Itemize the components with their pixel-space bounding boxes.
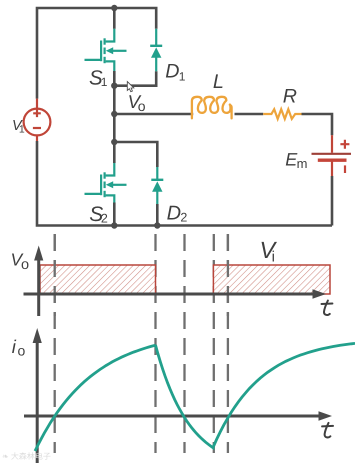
svg-text:o: o [18, 343, 26, 359]
svg-text:i: i [272, 249, 275, 266]
svg-text:m: m [297, 156, 308, 171]
svg-text:o: o [21, 257, 29, 273]
svg-text:1: 1 [19, 124, 25, 136]
svg-text:D: D [167, 202, 181, 224]
svg-text:1: 1 [179, 69, 186, 83]
svg-text:D: D [165, 61, 179, 83]
svg-text:L: L [213, 71, 224, 93]
svg-text:1: 1 [101, 75, 108, 89]
svg-text:2: 2 [180, 210, 187, 224]
svg-text:o: o [138, 98, 146, 114]
svg-text:R: R [283, 85, 297, 107]
svg-text:2: 2 [101, 211, 108, 225]
svg-text:i: i [12, 336, 17, 357]
svg-text:❧ 大森林电子: ❧ 大森林电子 [2, 452, 51, 461]
